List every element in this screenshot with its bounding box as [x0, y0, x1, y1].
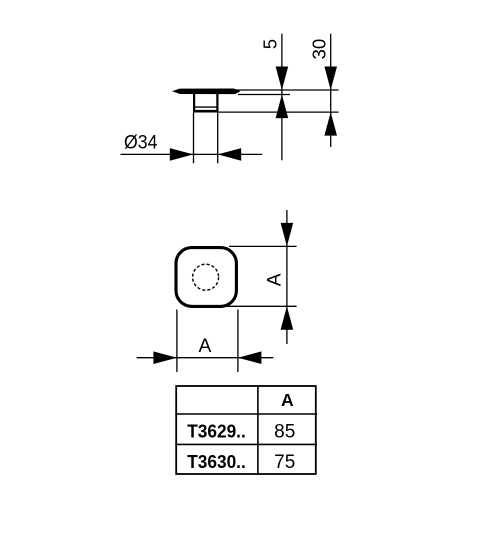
- plan view: dashed circle (waste hole): [193, 264, 219, 290]
- arrow A horizontal right: [238, 351, 262, 364]
- table outer border: [176, 386, 316, 474]
- svg-text:T3630..: T3630..: [187, 452, 246, 472]
- extension line plan top right: [229, 245, 297, 247]
- dimension line Ø34: [121, 153, 263, 155]
- side view: cap (flange): [172, 89, 241, 95]
- side view: neck inner line: [193, 106, 219, 108]
- extension line neck bottom: [219, 111, 339, 113]
- arrow 5 upper: [276, 67, 289, 91]
- extension line right (Ø34): [217, 113, 219, 164]
- arrow Ø34 left: [170, 148, 194, 161]
- side view: neck left wall: [193, 94, 195, 113]
- table row divider 1: [175, 413, 317, 415]
- table column divider: [257, 385, 259, 475]
- svg-text:30: 30: [308, 39, 329, 60]
- extension line left (Ø34): [193, 113, 195, 164]
- side view: neck right wall: [216, 94, 218, 113]
- svg-text:A: A: [281, 390, 294, 410]
- arrow 30 lower: [324, 112, 337, 136]
- svg-text:85: 85: [274, 422, 295, 443]
- extension line plan left bottom: [176, 310, 178, 373]
- table row divider 2: [175, 443, 317, 445]
- svg-text:75: 75: [274, 452, 295, 473]
- dimension line A horizontal: [137, 357, 274, 359]
- arrow A vertical upper: [281, 223, 294, 247]
- svg-text:T3629..: T3629..: [187, 422, 246, 442]
- dimension line 30: [330, 34, 332, 147]
- extension line plan right bottom: [237, 310, 239, 373]
- svg-text:A: A: [264, 273, 285, 286]
- arrow 30 upper: [324, 67, 337, 91]
- arrow A horizontal left: [153, 351, 177, 364]
- plan view: rounded square body: [176, 248, 236, 307]
- side view: neck bottom band: [193, 110, 219, 113]
- svg-text:A: A: [198, 336, 211, 357]
- extension line cap bottom: [238, 94, 290, 96]
- arrow 5 lower: [276, 95, 289, 119]
- dimension line 5: [281, 34, 283, 161]
- dimension line A vertical: [286, 210, 288, 344]
- extension line cap top: [230, 89, 339, 91]
- svg-text:Ø34: Ø34: [124, 132, 158, 153]
- arrow Ø34 right: [218, 148, 242, 161]
- arrow A vertical lower: [281, 306, 294, 330]
- svg-text:5: 5: [259, 39, 280, 49]
- extension line plan bottom right: [226, 305, 297, 307]
